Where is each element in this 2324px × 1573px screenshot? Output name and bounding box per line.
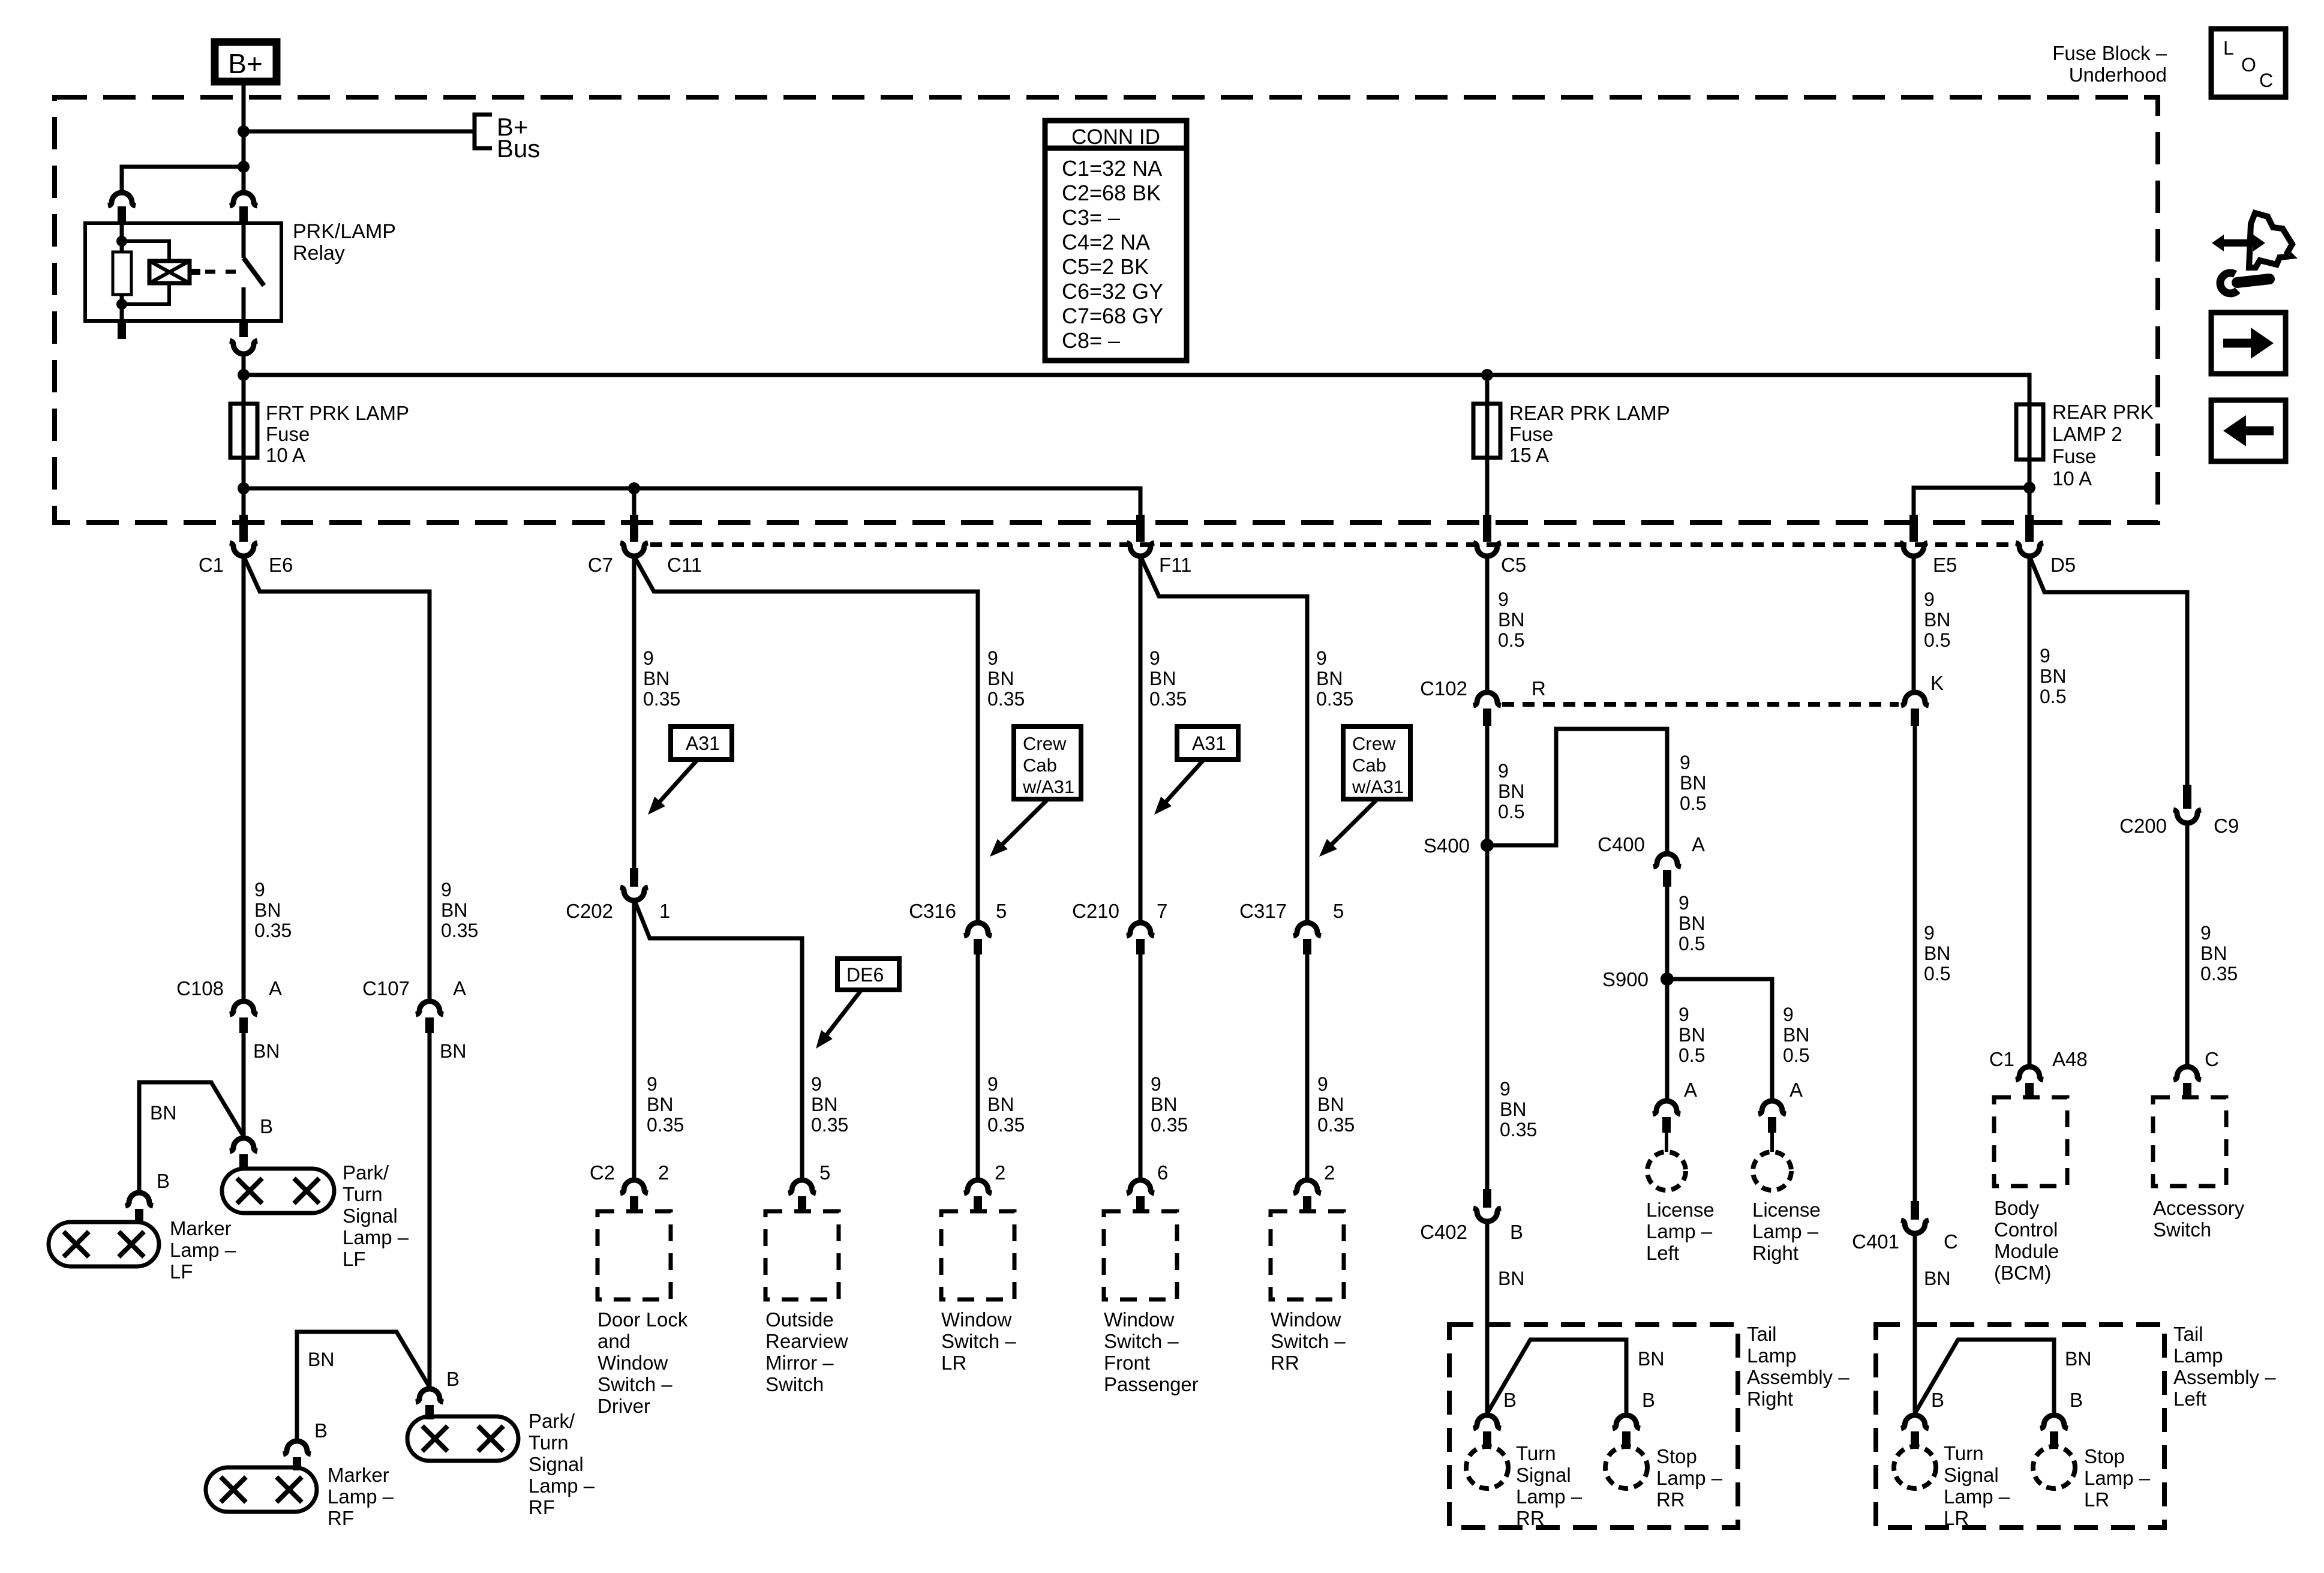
svg-text:9: 9 xyxy=(647,1073,657,1095)
svg-text:BN: BN xyxy=(1924,609,1950,631)
wire S900 to license left xyxy=(1665,979,1670,1101)
svg-text:B+: B+ xyxy=(228,48,263,79)
svg-text:LF: LF xyxy=(343,1248,366,1270)
svg-text:RR: RR xyxy=(1271,1352,1299,1374)
node B+ bus junction xyxy=(238,125,250,137)
svg-text:9: 9 xyxy=(987,1073,998,1095)
lamp turn signal RR xyxy=(1466,1446,1508,1488)
svg-text:Lamp –: Lamp – xyxy=(529,1475,595,1497)
component Body Control Module box xyxy=(1994,1097,2067,1186)
relay coil ground pin xyxy=(118,321,126,339)
wire C11 branch to C316 xyxy=(634,556,978,923)
svg-text:C5: C5 xyxy=(1501,554,1526,576)
svg-text:Switch –: Switch – xyxy=(1271,1330,1346,1352)
svg-text:BN: BN xyxy=(1498,781,1524,802)
svg-text:Cab: Cab xyxy=(1023,755,1057,776)
connector C5 at fuse block xyxy=(1483,515,1491,542)
svg-text:C2: C2 xyxy=(590,1161,615,1184)
svg-text:Mirror –: Mirror – xyxy=(765,1352,834,1374)
svg-text:2: 2 xyxy=(995,1161,1005,1184)
svg-text:Crew: Crew xyxy=(1023,733,1067,754)
power node B+ xyxy=(215,42,277,82)
wire K to C401 xyxy=(1913,726,1917,1201)
svg-text:Turn: Turn xyxy=(529,1431,569,1454)
svg-text:C3= –: C3= – xyxy=(1062,205,1120,230)
component tail lamp assembly left box xyxy=(1876,1325,2164,1527)
svg-text:9: 9 xyxy=(1149,647,1160,669)
wire to B+ bus xyxy=(244,130,473,134)
svg-text:Driver: Driver xyxy=(597,1395,650,1417)
connector marker RF B xyxy=(283,1441,311,1454)
wire stop lamp RR branch xyxy=(1487,1340,1626,1416)
svg-text:5: 5 xyxy=(1333,900,1344,922)
wire to relay coil xyxy=(122,167,244,193)
connector C402 cavity B xyxy=(1483,1189,1491,1208)
svg-text:Fuse Block –: Fuse Block – xyxy=(2052,42,2167,64)
connector accessory switch C xyxy=(2173,1067,2201,1080)
connector stop LR B xyxy=(2040,1415,2068,1428)
wire stop lamp LR branch xyxy=(1915,1340,2054,1416)
callout DE6 to mirror wire xyxy=(837,959,899,990)
wire C401 to turn lamp LR xyxy=(1913,1232,1917,1416)
wire C316 to window switch LR xyxy=(976,954,980,1181)
svg-text:PRK/LAMP: PRK/LAMP xyxy=(293,220,396,243)
svg-text:C1: C1 xyxy=(1989,1048,2014,1070)
svg-text:Control: Control xyxy=(1994,1218,2058,1241)
svg-text:0.35: 0.35 xyxy=(987,688,1025,710)
svg-text:Tail: Tail xyxy=(2173,1323,2203,1345)
svg-text:Window: Window xyxy=(1104,1308,1175,1331)
svg-text:Assembly –: Assembly – xyxy=(1747,1366,1849,1388)
svg-text:Bus: Bus xyxy=(497,134,540,163)
svg-text:Turn: Turn xyxy=(1944,1442,1984,1464)
wire C108 to park lamp LF xyxy=(242,1033,246,1138)
svg-text:C102: C102 xyxy=(1420,677,1467,700)
svg-text:Fuse: Fuse xyxy=(2052,445,2096,467)
svg-text:0.35: 0.35 xyxy=(1151,1114,1188,1136)
node E5 tap xyxy=(2023,482,2035,494)
svg-text:Window: Window xyxy=(597,1352,668,1374)
svg-text:B: B xyxy=(314,1419,328,1442)
svg-text:and: and xyxy=(597,1330,630,1352)
svg-text:K: K xyxy=(1930,672,1944,694)
svg-text:0.5: 0.5 xyxy=(1924,629,1950,651)
svg-text:B: B xyxy=(260,1115,273,1137)
svg-text:Switch: Switch xyxy=(2153,1218,2211,1241)
fuse FRT PRK LAMP 10A xyxy=(230,404,257,458)
lamp park/turn signal LF xyxy=(222,1169,334,1213)
svg-text:Outside: Outside xyxy=(765,1308,834,1331)
svg-text:LR: LR xyxy=(2084,1488,2109,1511)
svg-text:Cab: Cab xyxy=(1352,755,1386,776)
svg-text:9: 9 xyxy=(1924,922,1935,944)
svg-text:BN: BN xyxy=(2200,942,2227,964)
svg-text:Lamp –: Lamp – xyxy=(1944,1485,2010,1508)
connector F11 at fuse block xyxy=(1136,515,1145,542)
svg-text:9: 9 xyxy=(1680,752,1691,773)
connector window FP cavity 6 xyxy=(1127,1180,1154,1193)
lamp stop LR xyxy=(2033,1446,2075,1488)
svg-text:Lamp –: Lamp – xyxy=(328,1485,394,1508)
svg-text:E5: E5 xyxy=(1933,554,1957,576)
svg-text:L: L xyxy=(2223,37,2234,59)
svg-text:License: License xyxy=(1646,1199,1715,1221)
svg-text:BN: BN xyxy=(1924,942,1950,964)
connector K xyxy=(1901,692,1929,706)
component Outside Rearview Mirror - Switch xyxy=(765,1211,839,1299)
svg-text:10 A: 10 A xyxy=(266,444,305,466)
svg-text:RR: RR xyxy=(1516,1507,1545,1529)
svg-text:Door Lock: Door Lock xyxy=(597,1308,688,1331)
svg-text:9: 9 xyxy=(1924,589,1935,610)
svg-text:C6=32 GY: C6=32 GY xyxy=(1062,279,1163,304)
svg-text:C107: C107 xyxy=(362,977,410,999)
svg-text:7: 7 xyxy=(1157,900,1167,922)
node coil bottom xyxy=(116,299,127,310)
svg-text:(BCM): (BCM) xyxy=(1994,1262,2051,1284)
wire E5 branch xyxy=(1914,488,2029,515)
svg-text:RF: RF xyxy=(529,1496,555,1518)
svg-text:BN: BN xyxy=(1783,1024,1809,1046)
component Window Switch - LR xyxy=(941,1211,1014,1299)
svg-text:C1=32 NA: C1=32 NA xyxy=(1062,156,1162,181)
svg-text:BN: BN xyxy=(253,1040,280,1062)
svg-text:Signal: Signal xyxy=(343,1205,398,1227)
svg-text:9: 9 xyxy=(811,1073,822,1095)
svg-text:Body: Body xyxy=(1994,1197,2040,1219)
icon service vehicle xyxy=(2249,213,2292,268)
svg-text:0.35: 0.35 xyxy=(2200,963,2238,984)
svg-text:Park/: Park/ xyxy=(343,1161,389,1184)
svg-text:A: A xyxy=(1789,1079,1803,1101)
svg-text:S900: S900 xyxy=(1602,968,1649,990)
svg-text:9: 9 xyxy=(1498,589,1509,610)
svg-text:LAMP 2: LAMP 2 xyxy=(2052,423,2122,445)
svg-text:BN: BN xyxy=(647,1094,673,1115)
connector C400 cavity A xyxy=(1653,854,1681,867)
node C7 tap xyxy=(628,482,640,494)
svg-text:Fuse: Fuse xyxy=(266,423,310,445)
connector C316 cavity 5 xyxy=(964,923,992,936)
wire S400 to C402 xyxy=(1485,845,1490,1189)
icon wrench xyxy=(2237,279,2269,283)
svg-text:LR: LR xyxy=(1944,1507,1969,1529)
svg-text:A: A xyxy=(269,977,282,999)
fuse block underhood dashed box xyxy=(55,97,2158,523)
svg-text:9: 9 xyxy=(1151,1073,1161,1095)
wire coil branch xyxy=(122,241,169,304)
svg-text:1: 1 xyxy=(659,900,670,922)
svg-text:Window: Window xyxy=(941,1308,1012,1331)
svg-text:Switch –: Switch – xyxy=(1104,1330,1179,1352)
connector C210 cavity 7 xyxy=(1127,923,1154,936)
lamp license right xyxy=(1753,1152,1791,1190)
svg-text:C7: C7 xyxy=(588,554,613,576)
svg-text:0.5: 0.5 xyxy=(2040,686,2066,707)
svg-text:0.5: 0.5 xyxy=(1498,801,1524,822)
svg-text:C1: C1 xyxy=(199,554,224,576)
svg-text:Signal: Signal xyxy=(1516,1464,1571,1486)
svg-text:RR: RR xyxy=(1656,1488,1685,1511)
svg-text:Lamp –: Lamp – xyxy=(1752,1220,1819,1242)
connector C1 at fuse block xyxy=(239,515,248,542)
wire F11 to C210 xyxy=(1139,556,1143,923)
wire S400 branch to C400 xyxy=(1487,729,1667,854)
node S900 splice xyxy=(1661,972,1674,986)
connector park/turn LF B xyxy=(230,1138,257,1151)
svg-text:Signal: Signal xyxy=(1944,1464,1999,1486)
svg-text:Turn: Turn xyxy=(343,1183,383,1205)
component Window Switch - RR xyxy=(1271,1211,1344,1299)
svg-text:C9: C9 xyxy=(2214,815,2239,837)
svg-text:A: A xyxy=(1692,833,1705,855)
svg-text:Right: Right xyxy=(1747,1388,1793,1410)
svg-text:LR: LR xyxy=(941,1352,966,1374)
svg-text:C402: C402 xyxy=(1420,1221,1467,1243)
svg-text:Rearview: Rearview xyxy=(765,1330,848,1352)
svg-text:B: B xyxy=(157,1170,170,1192)
wire F11 branch to C317 xyxy=(1140,556,1307,923)
wire C7 to C202 xyxy=(632,556,636,870)
svg-text:Marker: Marker xyxy=(170,1217,232,1239)
svg-text:9: 9 xyxy=(1500,1078,1511,1100)
svg-text:C108: C108 xyxy=(176,977,224,999)
lamp turn signal LR xyxy=(1894,1446,1936,1488)
node coil top xyxy=(116,236,127,247)
svg-text:REAR PRK: REAR PRK xyxy=(2052,401,2154,423)
svg-text:BN: BN xyxy=(2065,1348,2091,1370)
svg-text:FRT PRK LAMP: FRT PRK LAMP xyxy=(266,402,409,424)
svg-text:0.35: 0.35 xyxy=(1500,1119,1537,1140)
svg-text:9: 9 xyxy=(441,879,452,900)
wire C317 to window switch RR xyxy=(1305,954,1310,1181)
svg-text:Stop: Stop xyxy=(2084,1445,2125,1467)
fuse REAR PRK LAMP 2 10A xyxy=(2016,404,2043,460)
svg-text:BN: BN xyxy=(308,1349,334,1370)
svg-text:0.5: 0.5 xyxy=(1924,963,1950,984)
svg-text:Crew: Crew xyxy=(1352,733,1396,754)
svg-text:0.35: 0.35 xyxy=(1149,688,1187,710)
svg-text:0.35: 0.35 xyxy=(441,920,478,941)
svg-text:0.35: 0.35 xyxy=(643,688,680,710)
svg-text:C202: C202 xyxy=(566,900,613,922)
svg-text:Switch –: Switch – xyxy=(597,1373,672,1395)
svg-text:BN: BN xyxy=(1679,912,1705,934)
svg-text:2: 2 xyxy=(1324,1161,1335,1184)
svg-text:2: 2 xyxy=(658,1161,669,1184)
svg-text:Left: Left xyxy=(1646,1242,1679,1264)
svg-text:BN: BN xyxy=(1638,1348,1664,1370)
wire C5 to C102 xyxy=(1485,556,1490,693)
connector C7 at fuse block xyxy=(630,515,638,542)
wire marker RF branch xyxy=(297,1332,430,1441)
wire top feed bus xyxy=(244,375,2029,404)
component tail lamp assembly right box xyxy=(1449,1325,1738,1527)
wire C202 to door lock switch xyxy=(632,899,636,1181)
svg-text:Signal: Signal xyxy=(529,1453,584,1475)
wire B+ feed xyxy=(242,85,246,193)
lamp marker LF xyxy=(49,1222,159,1266)
svg-text:C8= –: C8= – xyxy=(1062,328,1120,353)
svg-text:C401: C401 xyxy=(1852,1230,1899,1253)
svg-text:9: 9 xyxy=(1679,892,1689,914)
svg-text:Lamp –: Lamp – xyxy=(2084,1467,2151,1489)
svg-text:S400: S400 xyxy=(1424,834,1470,857)
wire E6 branch to C107 xyxy=(244,556,430,1002)
component Accessory Switch box xyxy=(2153,1097,2226,1186)
wire C107 to park lamp RF xyxy=(428,1033,432,1389)
wire C7 drop xyxy=(632,488,636,515)
svg-text:B: B xyxy=(2070,1389,2083,1411)
callout A31 to C7 wire xyxy=(671,727,732,760)
svg-text:BN: BN xyxy=(440,1040,466,1062)
svg-text:0.35: 0.35 xyxy=(1316,688,1353,710)
svg-text:BN: BN xyxy=(1498,609,1524,631)
svg-text:BN: BN xyxy=(1679,1024,1705,1046)
svg-text:0.35: 0.35 xyxy=(254,920,292,941)
wire C200 to accessory switch xyxy=(2185,822,2190,1067)
relay coil supply connector pin xyxy=(108,193,136,206)
icon arrow right box xyxy=(2211,313,2286,374)
svg-text:Lamp: Lamp xyxy=(2173,1344,2223,1367)
connector marker LF B xyxy=(125,1193,153,1206)
svg-text:Lamp: Lamp xyxy=(1747,1344,1797,1367)
svg-text:C11: C11 xyxy=(667,554,702,576)
CONN ID table xyxy=(1045,121,1187,361)
node FRT fuse tap xyxy=(238,369,250,381)
svg-text:E6: E6 xyxy=(269,554,293,576)
svg-text:Stop: Stop xyxy=(1656,1445,1697,1467)
lamp license left xyxy=(1647,1152,1686,1190)
resistor relay coil suppression xyxy=(113,252,131,295)
connector C202 cavity 1 xyxy=(630,868,638,887)
svg-text:C5=2 BK: C5=2 BK xyxy=(1062,254,1149,279)
svg-text:C: C xyxy=(2205,1048,2219,1070)
wire marker LF branch xyxy=(139,1082,244,1193)
svg-text:C: C xyxy=(2259,70,2273,91)
svg-text:License: License xyxy=(1752,1199,1821,1221)
svg-text:B: B xyxy=(446,1368,460,1390)
svg-text:BN: BN xyxy=(1149,668,1176,689)
svg-text:15 A: 15 A xyxy=(1509,444,1549,466)
connector turn LR B xyxy=(1901,1415,1929,1428)
svg-text:5: 5 xyxy=(996,900,1007,922)
svg-text:9: 9 xyxy=(1498,760,1509,782)
svg-text:9: 9 xyxy=(2200,922,2211,944)
svg-text:B: B xyxy=(1642,1389,1655,1411)
svg-text:LF: LF xyxy=(170,1260,193,1283)
svg-text:Accessory: Accessory xyxy=(2153,1197,2245,1219)
svg-text:F11: F11 xyxy=(1159,554,1191,576)
relay actuator dashed link xyxy=(205,270,241,274)
wire C102 to S400 xyxy=(1485,726,1490,845)
connector C102 cavity R xyxy=(1473,692,1501,706)
wire C400 to S900 xyxy=(1665,887,1670,979)
svg-text:5: 5 xyxy=(819,1161,830,1184)
svg-text:Relay: Relay xyxy=(293,242,345,265)
wire C402 to turn lamp RR xyxy=(1485,1220,1490,1416)
connector window LR cavity 2 xyxy=(964,1180,992,1193)
wire front lamps bus xyxy=(244,488,1140,515)
svg-text:Assembly –: Assembly – xyxy=(2173,1366,2276,1388)
relay PRK/LAMP box xyxy=(85,223,281,321)
svg-text:Front: Front xyxy=(1104,1352,1150,1374)
svg-text:BN: BN xyxy=(1316,668,1343,689)
callout Crew Cab w/A31 to C317 wire xyxy=(1343,727,1410,799)
lamp park/turn signal RF xyxy=(407,1416,518,1461)
svg-text:BN: BN xyxy=(1151,1094,1177,1115)
wire D5 to BCM xyxy=(2028,556,2032,1067)
lamp marker RF xyxy=(206,1467,317,1512)
svg-text:A31: A31 xyxy=(686,733,720,754)
wire E5 to K xyxy=(1912,556,1916,693)
fuse REAR PRK LAMP 15A xyxy=(1473,404,1500,458)
connector C11 pass-through line xyxy=(650,542,2013,547)
svg-text:BN: BN xyxy=(987,668,1014,689)
svg-text:0.5: 0.5 xyxy=(1498,629,1524,651)
svg-text:9: 9 xyxy=(987,647,998,669)
B+ Bus stub terminal xyxy=(475,115,492,148)
icon arrow left box xyxy=(2211,400,2286,461)
svg-text:RF: RF xyxy=(328,1507,354,1529)
svg-text:C: C xyxy=(1944,1230,1958,1253)
svg-text:Lamp –: Lamp – xyxy=(1516,1485,1583,1508)
node REAR fuse tap xyxy=(1481,369,1493,381)
wire relay output xyxy=(242,355,246,404)
relay switch supply connector pin xyxy=(230,193,257,206)
svg-text:Right: Right xyxy=(1752,1242,1798,1264)
svg-text:Park/: Park/ xyxy=(529,1410,575,1432)
svg-text:Fuse: Fuse xyxy=(1509,423,1553,445)
svg-text:BN: BN xyxy=(1500,1098,1526,1120)
svg-text:Marker: Marker xyxy=(328,1464,389,1486)
connector turn RR B xyxy=(1473,1415,1501,1428)
svg-text:0.5: 0.5 xyxy=(1679,1044,1705,1066)
wire relay coil left leg xyxy=(120,223,124,321)
node C1 tap xyxy=(238,482,250,494)
svg-text:C317: C317 xyxy=(1239,900,1287,922)
wire C210 to window switch FP xyxy=(1139,954,1143,1181)
connector C108 xyxy=(230,1001,257,1014)
svg-text:BN: BN xyxy=(811,1094,837,1115)
svg-text:C210: C210 xyxy=(1072,900,1119,922)
connector stop RR B xyxy=(1613,1415,1640,1428)
svg-text:C400: C400 xyxy=(1598,833,1645,855)
connector C107 xyxy=(416,1001,443,1014)
svg-text:Underhood: Underhood xyxy=(2069,64,2167,86)
svg-text:10 A: 10 A xyxy=(2052,467,2092,490)
svg-text:9: 9 xyxy=(643,647,654,669)
connector C317 cavity 5 xyxy=(1293,923,1321,936)
svg-text:Passenger: Passenger xyxy=(1104,1373,1199,1395)
connector C401 cavity C xyxy=(1911,1201,1919,1220)
svg-text:9: 9 xyxy=(1316,647,1327,669)
relay switch output pin xyxy=(239,321,248,337)
connector C200 cavity C9 xyxy=(2183,785,2191,809)
connector D5 at fuse block xyxy=(2025,515,2034,542)
wire REAR fuse to C5 xyxy=(1485,458,1490,515)
svg-text:D5: D5 xyxy=(2050,554,2076,576)
svg-text:9: 9 xyxy=(1317,1073,1328,1095)
svg-text:A: A xyxy=(453,977,466,999)
svg-text:w/A31: w/A31 xyxy=(1022,776,1074,797)
svg-text:0.5: 0.5 xyxy=(1680,792,1706,814)
svg-text:C2=68 BK: C2=68 BK xyxy=(1062,181,1161,205)
svg-text:O: O xyxy=(2241,54,2256,76)
svg-text:C4=2 NA: C4=2 NA xyxy=(1062,230,1150,254)
wire rear fuse drop xyxy=(1485,375,1490,404)
svg-text:BN: BN xyxy=(1317,1094,1344,1115)
